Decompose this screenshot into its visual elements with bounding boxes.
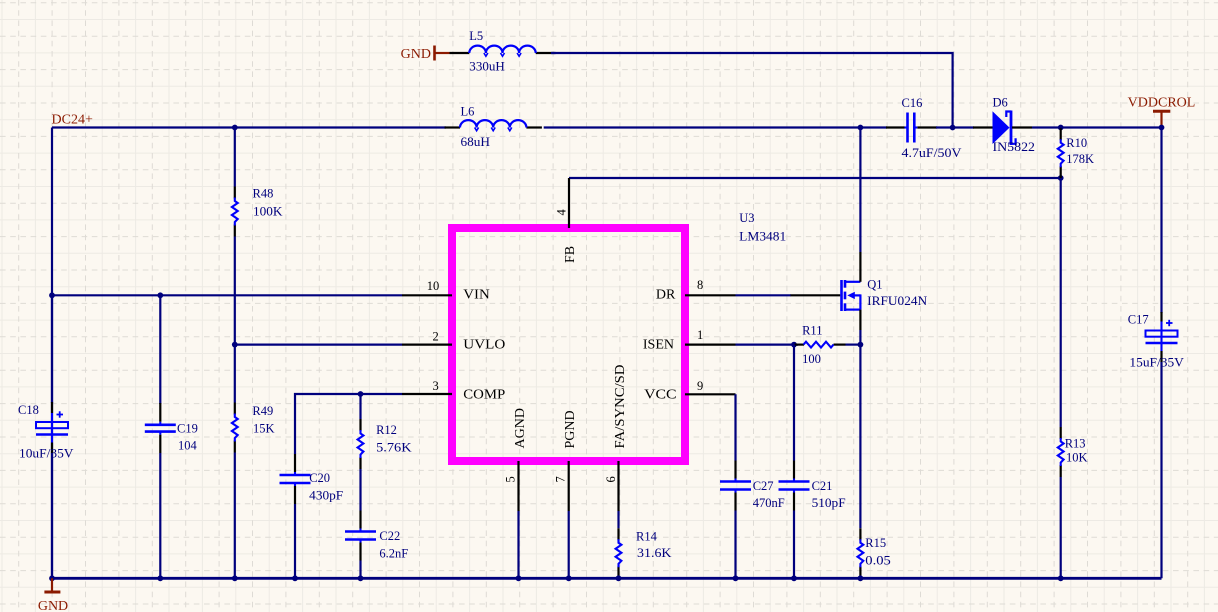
wire ISEN net [736,344,799,346]
svg-text:10K: 10K [1066,451,1088,465]
pin number 5 [503,476,517,482]
pin 8 DR [685,294,736,296]
label C16 value 4.7uF/50V [902,146,962,160]
label R49 value 15K [253,422,275,436]
svg-text:C17: C17 [1128,313,1149,327]
label C27 value 470nF [753,496,785,510]
svg-text:R49: R49 [252,404,273,418]
junction node at R10 top [1058,125,1064,131]
resistor R13 [1058,427,1064,477]
svg-text:R48: R48 [253,187,274,201]
wire UVLO net [235,344,402,346]
label C21 designator [812,479,833,493]
wire R13 bottom to ground rail [1060,477,1062,578]
pin number 3 [432,379,438,393]
svg-text:6.2nF: 6.2nF [379,547,408,561]
svg-text:R13: R13 [1065,436,1086,450]
pin number 1 [697,328,703,342]
wire C22 bottom [359,561,361,579]
junction node rail/C20 [292,575,298,581]
junction node left rail/VIN [49,292,55,298]
svg-text:L5: L5 [469,29,483,43]
label R12 designator [376,423,397,437]
svg-text:C16: C16 [902,96,923,110]
svg-text:104: 104 [178,438,198,452]
label L6 designator [461,104,475,118]
capacitor C16 [886,113,937,143]
pin 10 VIN [402,294,452,296]
resistor R10 [1058,128,1064,178]
junction node COMP/R12 [358,391,364,397]
svg-text:VCC: VCC [644,388,677,403]
capacitor C22 [345,511,376,561]
label L6 value 68uH [461,135,491,149]
wire ground rail [52,577,1162,580]
svg-text:R15: R15 [865,536,886,550]
junction node UVLO [232,342,238,348]
svg-text:31.6K: 31.6K [637,546,672,560]
pin 3 COMP [402,393,452,395]
wire DR to Q1 gate [736,294,792,296]
wire VCC to C27 [734,394,736,460]
label U3 designator [739,211,754,225]
label R14 designator [636,530,658,544]
svg-text:100: 100 [802,352,821,366]
label R48 designator [253,187,274,201]
capacitor C19 [145,403,176,453]
svg-text:DC24+: DC24+ [52,112,93,127]
label U3 value LM3481 [739,229,786,243]
svg-text:UVLO: UVLO [463,337,505,352]
label C21 value 510pF [812,496,846,510]
svg-text:ISEN: ISEN [643,337,674,352]
svg-text:PGND: PGND [563,410,578,448]
svg-text:L6: L6 [461,104,475,118]
wire R12 to C22 [359,469,361,511]
wire PGND pin to rail [568,511,570,578]
label C20 designator [309,471,330,485]
wire FB net (pin4 to R10 bottom) [569,177,1061,179]
svg-text:C21: C21 [812,479,833,493]
svg-text:R12: R12 [376,423,397,437]
wire VIN net [52,294,402,296]
svg-text:15uF/35V: 15uF/35V [1129,355,1184,369]
svg-text:510pF: 510pF [812,496,846,510]
pin name VIN [463,287,490,302]
pin 4 FB [568,178,570,228]
label R10 value 178K [1066,152,1094,166]
power port GND (top) [401,46,450,62]
label C18 value 10uF/35V [19,447,74,461]
label R49 designator [252,404,273,418]
wire VDDCROL to C17 [1160,128,1162,314]
pin number 10 [427,279,440,293]
svg-text:15K: 15K [253,422,275,436]
pin number 7 [553,476,567,482]
wire C27 bottom [734,511,736,579]
svg-text:178K: 178K [1066,152,1094,166]
svg-text:AGND: AGND [513,408,528,448]
label C17 designator [1128,313,1149,327]
junction node rail/C21 [791,575,797,581]
svg-text:GND: GND [38,599,68,612]
label R13 value 10K [1066,451,1088,465]
pin number 6 [604,476,618,482]
svg-text:0.05: 0.05 [865,554,891,568]
svg-text:R11: R11 [802,323,822,337]
junction node at Q1 drain rail [858,125,864,131]
label R11 value 100 [802,352,821,366]
junction node rail/PGND [566,575,572,581]
pin 9 VCC [685,393,736,395]
svg-text:D6: D6 [993,95,1008,109]
label R11 designator [802,323,822,337]
label D6 designator [993,95,1008,109]
pin name VCC [644,388,677,403]
junction node rail/R14 [616,575,622,581]
label C17 value 15uF/35V [1129,355,1184,369]
pin 1 ISEN [685,344,736,346]
svg-text:100K: 100K [253,205,283,219]
svg-text:C20: C20 [309,471,330,485]
junction node rail/C22 [358,575,364,581]
label R10 designator [1066,136,1087,150]
svg-text:LM3481: LM3481 [739,229,786,243]
wire C17 bottom to rail [1160,362,1162,578]
svg-text:3: 3 [432,379,438,393]
wire C18 bottom to rail [51,453,53,578]
wire C19 top [159,295,161,404]
svg-text:5: 5 [503,476,517,482]
capacitor C27 [720,461,751,511]
junction node rail/R49 [232,575,238,581]
svg-text:VIN: VIN [463,287,490,302]
wire C19 bottom [159,453,161,578]
resistor R49 [232,403,238,453]
label R12 value 5.76K [376,440,412,454]
junction node at C16/L5 [950,125,956,131]
transistor Q1 IRFU024N [791,252,861,330]
resistor R11 [795,342,846,348]
wire Q1 source down [859,330,861,528]
pin 6 FA/SYNC/SD [617,461,619,511]
pin name UVLO [463,337,505,352]
pin name FA/SYNC/SD [613,365,628,449]
svg-text:C22: C22 [379,529,400,543]
wire left rail vertical [51,128,53,579]
wire R48 to R49 [234,237,236,403]
svg-text:R10: R10 [1066,136,1087,150]
junction node rail/C19 [157,575,163,581]
svg-text:IRFU024N: IRFU024N [867,294,927,308]
junction node ISEN/R11/Q1 source [858,342,864,348]
label R15 value 0.05 [865,554,891,568]
junction node rail/R15 [858,575,864,581]
pin name ISEN [643,337,674,352]
svg-text:330uH: 330uH [469,60,505,74]
resistor R12 [358,419,364,469]
wire L5 to C16 node [551,53,953,128]
pin name COMP [463,387,505,402]
svg-text:4.7uF/50V: 4.7uF/50V [902,146,962,160]
wire R11 to Q1 source [846,344,861,346]
resistor R14 [616,528,622,578]
svg-text:5.76K: 5.76K [376,440,412,454]
svg-text:GND: GND [401,47,431,62]
pin 5 AGND [517,461,519,511]
net label DC24+ [52,112,93,127]
svg-text:FB: FB [563,246,578,263]
svg-text:4: 4 [555,209,569,216]
wire C20 bottom [294,504,296,578]
label Q1 value IRFU024N [867,294,927,308]
svg-text:IN5822: IN5822 [993,140,1036,154]
capacitor C20 [280,454,311,504]
diode D6 IN5822 (schottky) [973,111,1032,146]
pin 2 UVLO [402,344,452,346]
pin number 2 [432,330,438,344]
svg-text:1: 1 [697,328,703,342]
wire R49 bottom [234,453,236,579]
resistor R48 [232,187,238,237]
svg-text:VDDCROL: VDDCROL [1128,95,1196,110]
label C22 value 6.2nF [379,547,408,561]
label C16 designator [902,96,923,110]
label C19 value 104 [178,438,198,452]
junction node rail/R13 [1058,575,1064,581]
wire left rail to C18 [51,295,53,403]
label Q1 designator [867,278,882,292]
svg-text:7: 7 [553,476,567,482]
wire C21 bottom [793,511,795,579]
svg-text:FA/SYNC/SD: FA/SYNC/SD [613,365,628,449]
capacitor C17 (polarized) [1146,312,1178,362]
wire C21 top [793,345,795,461]
svg-text:10uF/35V: 10uF/35V [19,447,74,461]
svg-text:470nF: 470nF [753,496,785,510]
op-amp U3 LM3481 body [452,228,685,461]
label L5 designator [469,29,483,43]
svg-text:8: 8 [697,278,703,292]
power port VDDCROL [1128,95,1196,127]
label C22 designator [379,529,400,543]
wire Q1 drain to rail [859,128,861,253]
pin name DR [656,287,676,302]
capacitor C18 (polarized) [36,402,68,453]
svg-text:68uH: 68uH [461,135,491,149]
label D6 value IN5822 [993,140,1036,154]
capacitor C21 [779,461,810,511]
label R13 designator [1065,436,1086,450]
junction node at VDDCROL [1159,125,1165,131]
label C18 designator [18,403,39,417]
wire R48 top [234,128,236,187]
wire R13 top [1060,178,1062,427]
junction node at R48 top [232,125,238,131]
label C27 designator [753,479,774,493]
resistor R15 [858,528,864,578]
svg-text:10: 10 [427,279,440,293]
pin number 9 [697,379,703,393]
pin name PGND [563,410,578,448]
label R48 value 100K [253,205,283,219]
junction node FB/R10/R13 [1058,175,1064,181]
pin name FB [563,246,578,263]
junction node rail/C27 [733,575,739,581]
label C19 designator [177,421,198,435]
wire COMP net [295,394,402,454]
pin number 4 [555,209,569,216]
label R15 designator [865,536,886,550]
wire AGND pin to rail [517,511,519,578]
label R14 value 31.6K [637,546,672,560]
inductor L6 [445,120,542,131]
inductor L5 [450,46,556,57]
label C20 value 430pF [309,489,343,503]
svg-text:430pF: 430pF [309,489,343,503]
junction node rail/left [49,575,55,581]
power ground GND (bottom) [38,578,68,612]
svg-text:COMP: COMP [463,387,505,402]
junction node C19 top [157,292,163,298]
wire D6 to VDDCROL node [1032,126,1162,128]
svg-text:9: 9 [697,379,703,393]
pin number 8 [697,278,703,292]
pin 7 PGND [568,461,570,511]
svg-text:Q1: Q1 [867,278,882,292]
wire C16 to D6 [936,126,974,128]
svg-text:C18: C18 [18,403,39,417]
pin name AGND [513,408,528,448]
junction node rail/AGND [516,575,522,581]
svg-text:R14: R14 [636,530,658,544]
svg-text:U3: U3 [739,211,754,225]
svg-text:2: 2 [432,330,438,344]
wire R12 top [359,394,361,419]
svg-text:DR: DR [656,287,676,302]
junction node ISEN/C21 [791,342,797,348]
svg-text:C19: C19 [177,421,198,435]
svg-text:C27: C27 [753,479,774,493]
wire FA pin to R14 [617,511,619,528]
label L5 value 330uH [469,60,505,74]
svg-text:6: 6 [604,476,618,482]
wire L6 to C16 [544,126,887,128]
wire DC24+ rail left [52,126,446,128]
